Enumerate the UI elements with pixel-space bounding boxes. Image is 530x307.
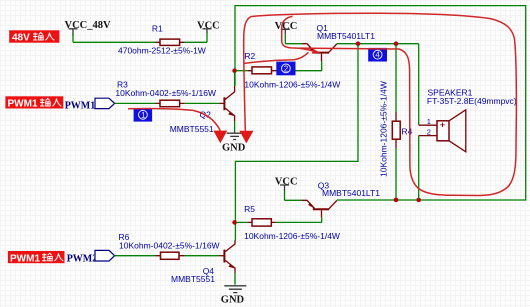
wire port to R3 bbox=[115, 102, 156, 104]
svg-text:R1: R1 bbox=[152, 24, 163, 34]
svg-text:1: 1 bbox=[427, 117, 431, 126]
svg-text:PWM1: PWM1 bbox=[8, 99, 38, 110]
power port VCC (top) bbox=[197, 20, 220, 33]
svg-text:VCC: VCC bbox=[197, 20, 220, 31]
label PWM1 input (bottom) bbox=[8, 251, 65, 264]
wire R2 row bbox=[236, 70, 248, 72]
marker 4 bbox=[368, 48, 387, 62]
wire R4 bottom to rail bbox=[395, 148, 397, 199]
svg-text:48V: 48V bbox=[12, 33, 30, 44]
wire port to R6 bbox=[115, 255, 156, 257]
wire R1 to VCC bbox=[184, 32, 207, 42]
svg-text:10Kohm-0402-±5%-1/16W: 10Kohm-0402-±5%-1/16W bbox=[115, 88, 216, 98]
annotation arrow right at GND with loop bbox=[239, 13, 516, 195]
transistor Q1 bbox=[302, 23, 375, 62]
svg-text:PWM2: PWM2 bbox=[67, 254, 98, 265]
transistor Q4 bbox=[171, 240, 235, 283]
junction node speaker pin2 bbox=[416, 198, 421, 203]
svg-text:R2: R2 bbox=[244, 51, 255, 61]
svg-text:MMBT5401LT1: MMBT5401LT1 bbox=[322, 188, 380, 198]
svg-text:PWM1: PWM1 bbox=[65, 101, 96, 112]
junction node R4 bottom bbox=[394, 198, 399, 203]
junction node collector x358 bbox=[356, 41, 361, 46]
svg-text:470ohm-2512-±5%-1W: 470ohm-2512-±5%-1W bbox=[118, 45, 206, 55]
svg-text:VCC: VCC bbox=[275, 21, 298, 32]
resistor R1 bbox=[118, 24, 206, 56]
power port VCC_48V bbox=[65, 20, 111, 42]
wire x358 down and across to x235 bbox=[235, 45, 358, 241]
resistor R5 bbox=[244, 204, 340, 241]
ground GND (Q4) bbox=[221, 286, 247, 306]
port PWM2 bbox=[95, 250, 115, 261]
svg-text:R4: R4 bbox=[402, 126, 413, 136]
svg-text:GND: GND bbox=[222, 143, 246, 154]
svg-text:GND: GND bbox=[221, 295, 245, 306]
svg-text:VCC: VCC bbox=[275, 176, 298, 187]
transistor Q2 bbox=[170, 86, 235, 134]
svg-text:MMBT5551: MMBT5551 bbox=[170, 124, 214, 134]
junction node R5 tap bbox=[232, 220, 237, 225]
wire VCC to Q1 emitter bbox=[285, 43, 302, 45]
svg-text:10Kohm-1206-±5%-1/4W: 10Kohm-1206-±5%-1/4W bbox=[244, 79, 340, 89]
wire Q2 emitter to ground bbox=[234, 121, 236, 133]
wire R2 to Q1 base bbox=[276, 61, 322, 70]
wire Q2 collector up bbox=[234, 72, 236, 86]
svg-text:PWM1: PWM1 bbox=[10, 253, 40, 264]
svg-text:MMBT5401LT1: MMBT5401LT1 bbox=[317, 31, 375, 41]
marker 2 bbox=[276, 62, 295, 76]
wire R4 branch bbox=[395, 45, 397, 112]
resistor R2 bbox=[244, 51, 340, 89]
wire VCC_48V to R1 bbox=[73, 41, 156, 43]
label PWM1 input (top) bbox=[5, 96, 63, 109]
power port VCC (Q1) bbox=[275, 21, 298, 44]
wire 48V rail vertical x235 and top loop bbox=[235, 6, 526, 200]
svg-text:10Kohm-1206-±5%-1/4W: 10Kohm-1206-±5%-1/4W bbox=[244, 231, 340, 241]
svg-text:1: 1 bbox=[141, 111, 146, 120]
wire R5 row bbox=[236, 221, 248, 223]
svg-text:4: 4 bbox=[375, 51, 380, 60]
annotation from marker 2 bbox=[244, 52, 308, 63]
wire R6 to Q4 base bbox=[184, 255, 220, 257]
ground GND (Q2) bbox=[222, 133, 246, 153]
junction node collector x396 bbox=[394, 41, 399, 46]
wire speaker pin2 down bbox=[418, 136, 420, 199]
power port VCC (Q3) bbox=[275, 176, 298, 200]
junction node R2 tap bbox=[232, 68, 237, 73]
resistor R4 bbox=[379, 81, 413, 177]
svg-text:10Kohm-1206-±5%-1/4W: 10Kohm-1206-±5%-1/4W bbox=[379, 81, 389, 177]
svg-text:10Kohm-0402-±5%-1/16W: 10Kohm-0402-±5%-1/16W bbox=[119, 241, 220, 251]
resistor R6 bbox=[119, 232, 220, 259]
wire R3 to Q2 base bbox=[184, 102, 220, 104]
svg-text:MMBT5551: MMBT5551 bbox=[171, 274, 215, 284]
svg-text:2: 2 bbox=[427, 127, 431, 136]
label 48V input bbox=[9, 30, 59, 43]
wire R5 to Q3 base bbox=[276, 217, 322, 222]
wire VCC to Q3 emitter bbox=[285, 199, 303, 201]
port PWM1 bbox=[95, 98, 115, 108]
svg-text:R5: R5 bbox=[244, 204, 255, 214]
svg-text:FT-35T-2.8E(49mmpvc): FT-35T-2.8E(49mmpvc) bbox=[427, 96, 517, 106]
speaker SPEAKER1 bbox=[419, 87, 517, 152]
wire Q1 collector row bbox=[337, 44, 419, 125]
annotation hook into Q1 emitter bbox=[282, 16, 321, 53]
marker 1 bbox=[134, 108, 153, 122]
annotation arrow left at GND bbox=[128, 109, 227, 144]
wire Q4 emitter to ground bbox=[234, 273, 236, 285]
transistor Q3 bbox=[302, 181, 380, 218]
svg-text:2: 2 bbox=[284, 64, 289, 73]
resistor R3 bbox=[115, 79, 216, 106]
